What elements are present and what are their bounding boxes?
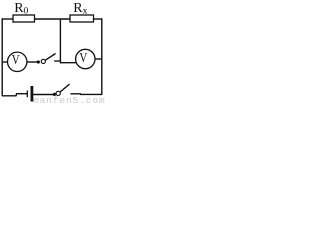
resistor R0	[13, 15, 35, 22]
S1 pivot circle	[41, 59, 45, 63]
wire left edge	[1, 18, 3, 96]
svg-text:V: V	[79, 50, 87, 66]
svg-text:V: V	[12, 52, 20, 68]
switch S2 (main)	[53, 84, 70, 96]
S1 fixed contact	[54, 60, 61, 62]
wire voltmeter V1 left stub	[2, 61, 8, 63]
wire V2 to right edge	[95, 58, 102, 60]
S1 blade	[45, 54, 55, 61]
wire V1 to switch S1	[27, 61, 38, 63]
svg-text:manfen5.com: manfen5.com	[33, 95, 105, 103]
S1 terminal dot	[37, 60, 40, 63]
wire right edge	[101, 18, 103, 94]
S2 blade	[60, 84, 69, 92]
voltmeter V1	[8, 52, 27, 72]
battery plate short/thick	[30, 86, 33, 102]
S2 terminal dot	[53, 93, 56, 96]
S2 pivot circle	[56, 91, 60, 95]
voltmeter V2	[76, 49, 95, 68]
wire bottom-left	[2, 94, 27, 96]
switch S1 (voltmeter branch)	[37, 54, 61, 64]
wire between R0 and Rx	[35, 18, 71, 20]
battery plate long/thin	[26, 91, 28, 98]
battery	[27, 86, 32, 102]
wire top-left	[2, 18, 14, 20]
wire mid vertical from node A	[59, 19, 61, 63]
resistor Rx	[70, 15, 94, 22]
wire node to voltmeter V2	[60, 62, 76, 64]
wire bottom-right	[71, 93, 103, 96]
wire top-right	[94, 18, 103, 20]
wire battery to switch S2	[33, 94, 54, 96]
